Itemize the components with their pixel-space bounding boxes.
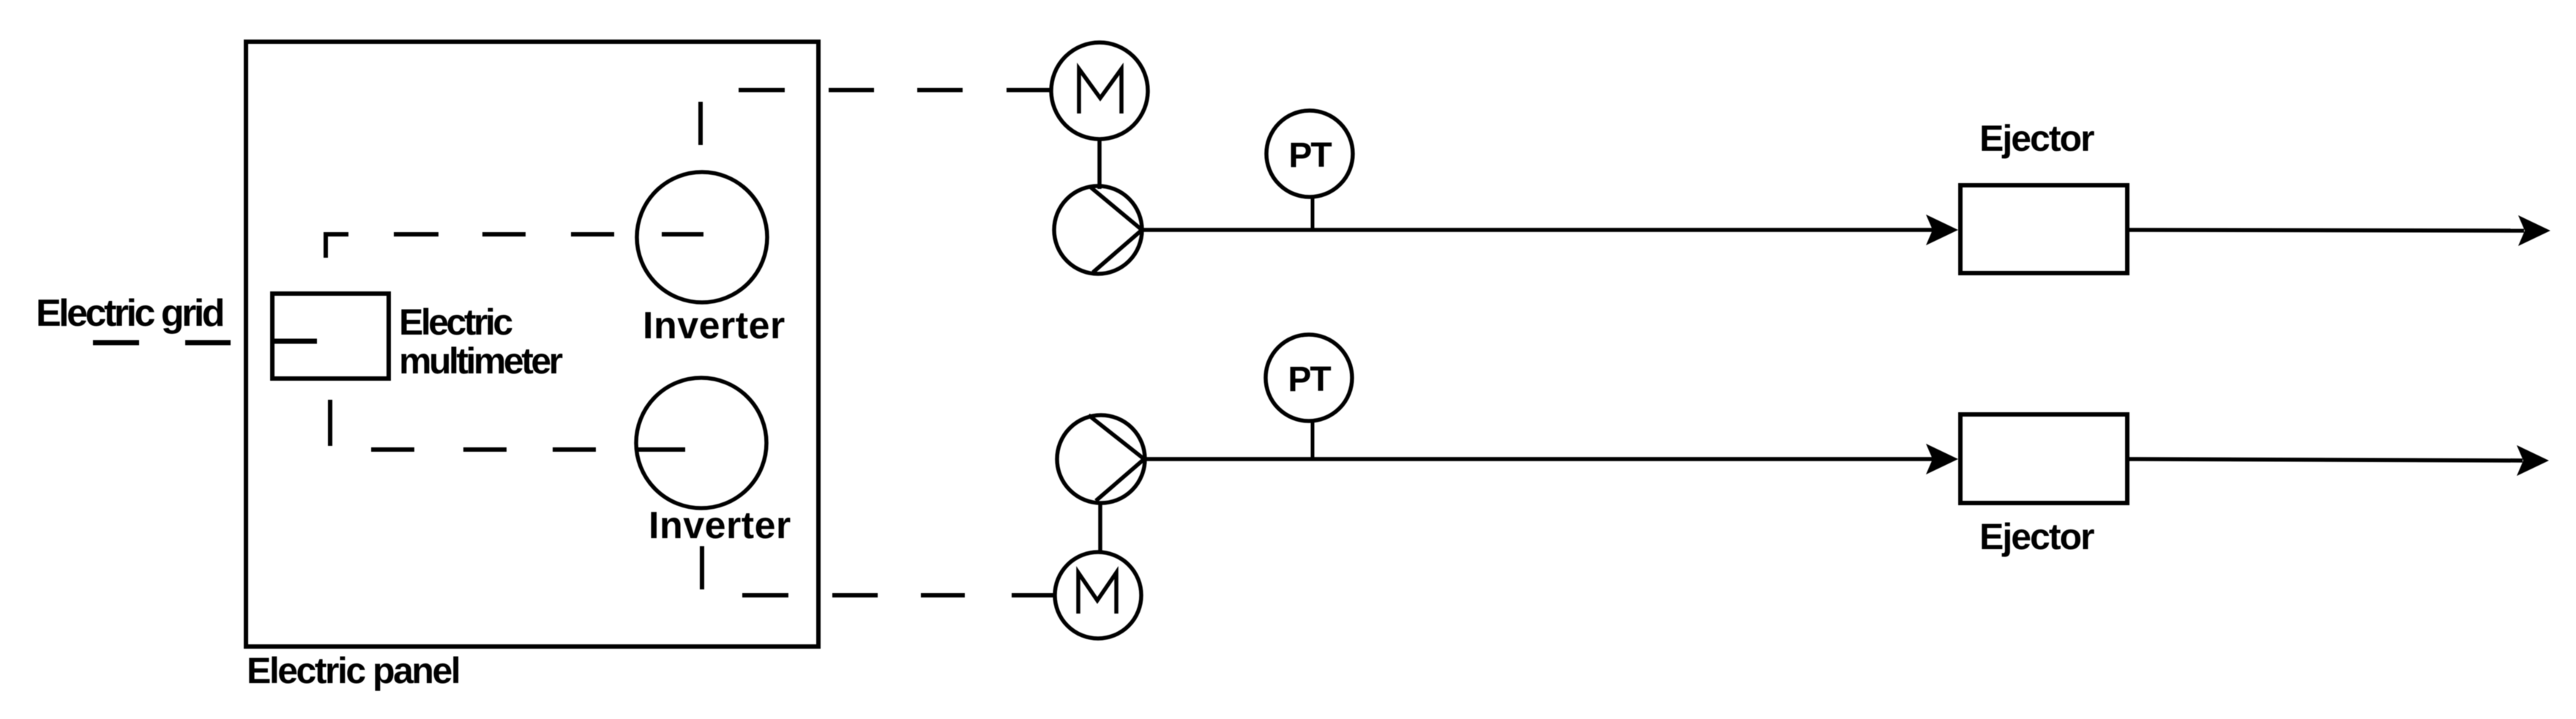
motor M1 letter M [1079, 69, 1121, 113]
svg-text:Ejector: Ejector [1979, 516, 2094, 557]
electric panel enclosure [246, 42, 818, 647]
arrowhead into ejector 1 [1926, 215, 1958, 245]
wire: ejector 2 outlet [2129, 459, 2523, 461]
pump P1 [1054, 186, 1142, 274]
motor M2 letter M [1078, 573, 1116, 614]
ejector 1 box [1960, 185, 2127, 273]
wire dashed: inverter 2 to motor M2 [702, 546, 1055, 595]
svg-text:Ejector: Ejector [1979, 118, 2094, 159]
arrowhead outlet 2 [2517, 445, 2549, 476]
arrowhead outlet 1 [2518, 215, 2550, 246]
wire: pump P1 outlet line [1142, 228, 1933, 232]
wire: pump P2 to motor M2 [1098, 502, 1102, 553]
svg-text:PT: PT [1288, 360, 1331, 399]
inverter 1 circle [637, 172, 767, 302]
wire dashed: inverter 1 to motor M1 [701, 90, 1051, 145]
transmitter PT2 [1266, 335, 1352, 421]
svg-text:Electric: Electric [399, 302, 512, 343]
wire dashed: multimeter to inverter 1 [326, 234, 703, 258]
wire dashed: multimeter to inverter 2 [330, 400, 685, 450]
inverter 2 circle [636, 378, 766, 508]
transmitter PT1 [1266, 111, 1353, 197]
svg-text:Electric grid: Electric grid [36, 292, 223, 335]
wire: pump P2 outlet line [1144, 457, 1933, 461]
wire: PT2 stem [1311, 421, 1315, 459]
motor M2 circle [1055, 552, 1141, 638]
svg-text:PT: PT [1288, 136, 1332, 175]
wire: motor M1 to pump P1 [1097, 141, 1102, 189]
svg-text:Inverter: Inverter [643, 305, 785, 347]
wire dashed: electric grid to multimeter [93, 341, 317, 343]
pump P2 [1057, 415, 1145, 503]
svg-text:multimeter: multimeter [399, 340, 563, 381]
multimeter U1 box [272, 294, 389, 379]
wire: ejector 1 outlet [2129, 230, 2524, 231]
arrowhead into ejector 2 [1926, 444, 1958, 474]
svg-text:Inverter: Inverter [649, 504, 791, 547]
ejector 2 box [1960, 414, 2127, 503]
wire: PT1 stem [1311, 197, 1315, 230]
svg-text:Electric panel: Electric panel [247, 650, 459, 691]
motor M1 circle [1051, 42, 1148, 139]
